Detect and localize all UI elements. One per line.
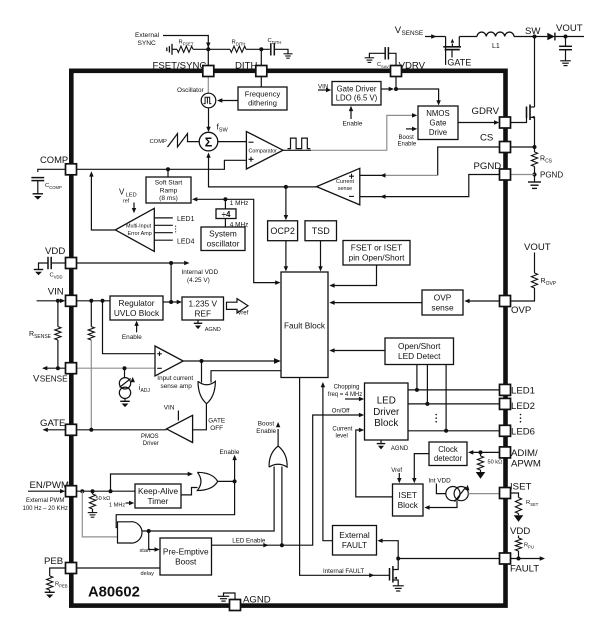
svg-text:RDITH: RDITH [232,40,246,47]
svg-text:Soft Start: Soft Start [155,180,183,187]
svg-text:Regulator: Regulator [119,298,155,308]
svg-text:LED Detect: LED Detect [398,351,441,361]
svg-text:dithering: dithering [248,99,277,108]
svg-text:System: System [209,229,237,239]
svg-text:start: start [140,548,151,554]
svg-text:LED2: LED2 [511,401,535,412]
svg-text:Current: Current [336,179,354,185]
svg-text:On/Off: On/Off [332,408,350,414]
svg-text:AGND: AGND [205,327,221,333]
svg-text:Driver: Driver [143,441,159,447]
svg-text:freq = 4 MHz: freq = 4 MHz [328,392,363,398]
svg-text:LED: LED [377,396,396,407]
svg-text:PMOS: PMOS [141,434,159,440]
svg-text:VIN: VIN [48,287,64,298]
svg-text:EN/PWM: EN/PWM [30,480,69,491]
svg-text:UVLO Block: UVLO Block [114,308,160,318]
svg-text:Internal FAULT: Internal FAULT [323,568,364,575]
svg-text:÷4: ÷4 [222,210,231,219]
svg-text:Vref: Vref [391,468,402,474]
svg-text:SYNC: SYNC [138,40,157,47]
svg-text:Error Amp: Error Amp [128,231,152,237]
svg-text:Comparator: Comparator [249,149,278,155]
svg-text:Gate: Gate [430,118,447,127]
svg-text:Ramp: Ramp [160,187,178,194]
svg-text:ref: ref [123,199,130,205]
svg-text:CVDD: CVDD [50,273,63,280]
svg-text:1.235 V: 1.235 V [188,298,217,308]
svg-text:Enable: Enable [256,428,276,435]
svg-text:(4.25 V): (4.25 V) [187,277,210,284]
svg-text:AGND: AGND [243,595,271,606]
svg-text:Pre-Emptive: Pre-Emptive [163,546,209,556]
svg-text:ISET: ISET [510,482,531,493]
svg-text:4 MHz: 4 MHz [230,222,248,229]
svg-text:SW: SW [525,26,541,37]
svg-text:Boost: Boost [175,556,197,566]
svg-text:Enable: Enable [220,449,240,456]
svg-text:DITH: DITH [235,60,257,71]
svg-text:CDITH: CDITH [268,38,282,45]
svg-text:TSD: TSD [312,226,331,236]
svg-text:1 MHz: 1 MHz [230,200,248,207]
svg-text:Oscillator: Oscillator [177,87,205,94]
svg-text:V: V [119,188,125,197]
svg-text:50 kΩ: 50 kΩ [96,496,111,502]
svg-text:Chopping: Chopping [334,385,360,391]
svg-text:COMP: COMP [40,154,68,165]
svg-text:Gate Driver: Gate Driver [337,84,377,93]
svg-text:VOUT: VOUT [524,242,551,253]
svg-text:OFF: OFF [210,425,223,432]
svg-text:LED Enable: LED Enable [232,538,266,545]
svg-text:SENSE: SENSE [40,375,68,384]
svg-text:GATE: GATE [208,417,225,424]
svg-text:Open/Short: Open/Short [398,341,441,351]
svg-text:ADIM/: ADIM/ [511,448,538,459]
svg-text:(8 ms): (8 ms) [159,195,178,202]
svg-text:NMOS: NMOS [426,109,449,118]
svg-text:GDRV: GDRV [472,106,500,117]
svg-text:Driver: Driver [373,407,400,418]
svg-text:Internal VDD: Internal VDD [182,269,219,276]
svg-text:Enable: Enable [343,120,363,127]
svg-text:Boost: Boost [258,421,275,428]
svg-text:VOUT: VOUT [556,23,583,34]
svg-text:Block: Block [398,500,419,510]
svg-text:oscillator: oscillator [207,239,240,249]
svg-text:PGND: PGND [540,171,563,180]
svg-text:LED1: LED1 [177,216,195,223]
svg-text:AGND: AGND [391,446,409,452]
svg-text:FAULT: FAULT [342,540,367,550]
svg-text:sense: sense [338,186,352,192]
svg-text:RFSET: RFSET [179,40,194,47]
svg-text:Fault Block: Fault Block [284,321,326,331]
svg-text:detector: detector [434,454,463,463]
svg-text:Keep-Alive: Keep-Alive [138,486,179,496]
svg-text:COMP: COMP [150,139,168,145]
svg-text:LED1: LED1 [511,386,535,397]
svg-text:Block: Block [374,418,398,429]
svg-text:CSAV: CSAV [377,62,389,69]
svg-text:PEB: PEB [44,556,63,567]
svg-text:PGND: PGND [474,161,502,172]
svg-text:ISET: ISET [399,490,417,500]
svg-text:GATE: GATE [40,418,65,429]
svg-text:50 kΩ: 50 kΩ [488,460,503,466]
svg-text:CS: CS [480,133,493,144]
svg-text:FSET or ISET: FSET or ISET [351,243,402,253]
svg-text:OVP: OVP [434,292,452,302]
svg-text:VDRV: VDRV [399,61,426,72]
svg-text:sense amp: sense amp [161,383,193,390]
svg-text:RSET: RSET [526,500,539,507]
svg-text:Enable: Enable [398,141,417,147]
svg-text:pin Open/Short: pin Open/Short [349,253,406,263]
svg-text:Int VDD: Int VDD [428,477,451,484]
svg-text:LDO (6.5 V): LDO (6.5 V) [336,94,378,103]
svg-text:Drive: Drive [429,128,447,137]
svg-text:Current: Current [332,427,352,433]
svg-text:OVP: OVP [511,305,531,316]
svg-text:External: External [339,530,370,540]
svg-text:GATE: GATE [447,58,471,68]
svg-text:Frequency: Frequency [245,90,281,99]
svg-text:Timer: Timer [148,496,169,506]
svg-text:Vref: Vref [238,311,249,317]
svg-text:level: level [336,433,348,439]
svg-text:SENSE: SENSE [402,30,424,37]
svg-text:Boost: Boost [399,135,415,141]
svg-text:LED4: LED4 [177,239,195,246]
svg-text:FAULT: FAULT [510,564,539,575]
svg-text:Σ: Σ [205,135,213,149]
svg-text:delay: delay [141,571,155,577]
svg-text:External PWM: External PWM [26,498,64,504]
svg-text:LED6: LED6 [511,427,535,438]
svg-text:RPU: RPU [524,543,534,550]
svg-text:100 Hz – 20 KHz: 100 Hz – 20 KHz [23,506,68,512]
svg-text:VDD: VDD [510,526,530,537]
svg-text:Enable: Enable [122,334,142,341]
svg-text:Multi-Input: Multi-Input [126,224,152,230]
svg-text:RPEB: RPEB [55,582,68,589]
svg-text:OCP2: OCP2 [270,226,295,236]
svg-text:FSET/SYNC: FSET/SYNC [153,60,207,71]
svg-text:VIN: VIN [318,84,328,91]
svg-text:VDD: VDD [45,246,65,257]
svg-text:REF: REF [194,308,211,318]
svg-text:CCOMP: CCOMP [45,183,62,190]
svg-text:Clock: Clock [438,445,458,454]
svg-text:VIN: VIN [164,405,175,412]
svg-text:Input current: Input current [157,375,193,382]
svg-text:sense: sense [431,302,454,312]
svg-text:A80602: A80602 [88,585,140,601]
svg-text:1 MHz: 1 MHz [109,503,125,509]
svg-text:L1: L1 [492,43,500,50]
svg-text:External: External [135,32,160,39]
svg-text:APWM: APWM [511,459,541,470]
